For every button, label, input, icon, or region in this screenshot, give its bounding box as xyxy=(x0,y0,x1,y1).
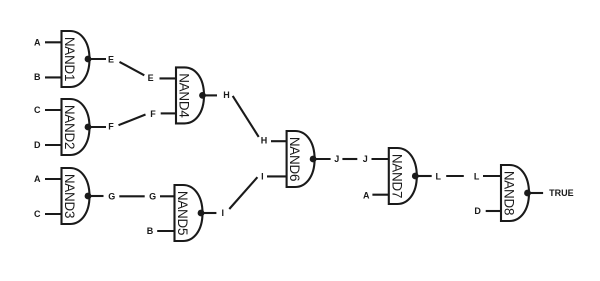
svg-text:NAND1: NAND1 xyxy=(62,37,77,81)
svg-text:H: H xyxy=(223,90,230,100)
svg-text:I: I xyxy=(261,172,264,182)
svg-text:NAND2: NAND2 xyxy=(62,105,77,149)
svg-text:J: J xyxy=(334,154,339,164)
svg-text:L: L xyxy=(435,171,441,181)
svg-text:B: B xyxy=(147,226,154,236)
svg-text:TRUE: TRUE xyxy=(549,188,574,198)
svg-text:NAND6: NAND6 xyxy=(287,137,302,181)
svg-text:F: F xyxy=(150,109,156,119)
svg-text:B: B xyxy=(34,72,41,82)
svg-text:E: E xyxy=(108,55,114,65)
svg-text:NAND7: NAND7 xyxy=(389,154,404,198)
svg-text:NAND8: NAND8 xyxy=(502,171,517,215)
svg-text:F: F xyxy=(108,122,114,132)
svg-text:NAND5: NAND5 xyxy=(175,191,190,235)
svg-text:I: I xyxy=(222,208,225,218)
svg-text:D: D xyxy=(474,206,481,216)
svg-text:G: G xyxy=(149,192,156,202)
svg-text:H: H xyxy=(261,136,268,146)
svg-text:E: E xyxy=(148,73,154,83)
svg-text:G: G xyxy=(108,191,115,201)
svg-text:L: L xyxy=(474,171,480,181)
svg-text:A: A xyxy=(34,38,41,48)
svg-text:C: C xyxy=(34,105,41,115)
svg-text:NAND4: NAND4 xyxy=(177,73,192,118)
svg-text:A: A xyxy=(363,190,370,200)
svg-text:A: A xyxy=(34,174,41,184)
svg-text:C: C xyxy=(34,209,41,219)
svg-text:J: J xyxy=(363,154,368,164)
svg-text:NAND3: NAND3 xyxy=(62,174,77,218)
svg-text:D: D xyxy=(34,140,41,150)
